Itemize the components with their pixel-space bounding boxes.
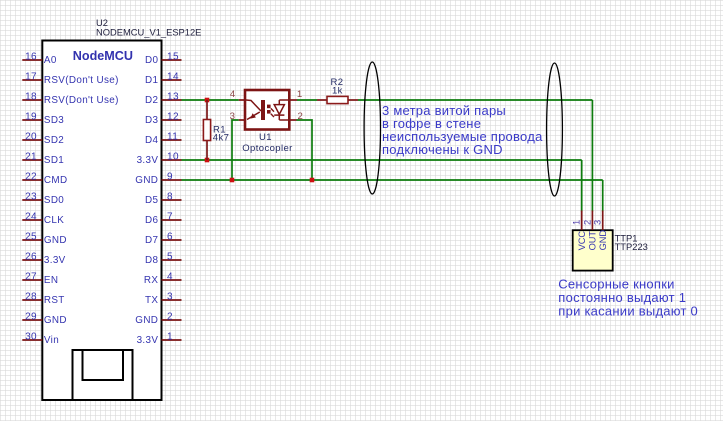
svg-text:3.3V: 3.3V <box>137 155 159 166</box>
U2 pin 8 D5 <box>145 191 182 206</box>
svg-text:19: 19 <box>25 111 37 122</box>
U1 pin 1 stub <box>289 99 298 101</box>
U2 pin 10 3.3V <box>137 151 182 166</box>
svg-text:Vin: Vin <box>44 335 59 346</box>
U1 light arrows <box>267 105 274 117</box>
U2 pin 21 SD1 <box>22 151 64 166</box>
svg-text:GND: GND <box>135 175 158 186</box>
wire OUT net from R2 to corner <box>358 99 592 101</box>
svg-text:18: 18 <box>25 91 37 102</box>
svg-text:1: 1 <box>297 89 302 100</box>
svg-text:D8: D8 <box>145 255 158 266</box>
svg-text:20: 20 <box>25 131 37 142</box>
svg-text:15: 15 <box>167 51 179 62</box>
svg-text:25: 25 <box>25 231 37 242</box>
cable bundle ellipse right <box>547 63 563 196</box>
svg-text:NodeMCU: NodeMCU <box>73 49 133 63</box>
svg-text:11: 11 <box>167 131 178 142</box>
U2 pin 6 D7 <box>145 231 182 246</box>
svg-text:16: 16 <box>25 51 37 62</box>
svg-text:VCC: VCC <box>577 231 587 251</box>
svg-text:29: 29 <box>25 311 37 322</box>
U2 pin 13 D2 <box>145 91 182 106</box>
svg-text:10: 10 <box>167 151 179 162</box>
U2 pin 15 D0 <box>145 51 182 66</box>
U2 pin 12 D3 <box>145 111 182 126</box>
svg-text:D7: D7 <box>145 235 158 246</box>
U2 pin 29 GND <box>22 311 67 326</box>
wire U1 pin2 to GND <box>297 120 313 180</box>
svg-text:5: 5 <box>167 251 173 262</box>
svg-text:24: 24 <box>25 211 37 222</box>
touch sensor TTP1 body <box>573 230 613 270</box>
U2 pin 16 A0 <box>22 51 57 66</box>
TTP1 pin 3 stub <box>602 211 604 231</box>
svg-text:RX: RX <box>144 275 158 286</box>
svg-text:3.3V: 3.3V <box>137 335 159 346</box>
U2 pin 5 D8 <box>145 251 182 266</box>
svg-text:TX: TX <box>145 295 158 306</box>
svg-text:1k: 1k <box>332 86 343 97</box>
wire GND net horizontal <box>182 179 603 181</box>
U1 pin 2 stub <box>289 119 297 121</box>
wire GND net vertical to TTP1 pin3 <box>602 180 604 212</box>
U2 pin 17 RSV(Don&#39;t Use) <box>22 71 118 86</box>
svg-text:D2: D2 <box>145 95 158 106</box>
svg-text:14: 14 <box>167 71 179 82</box>
U1 pin 3 stub <box>239 119 246 121</box>
wire 3.3V net horizontal <box>182 159 582 161</box>
svg-text:NODEMCU_V1_ESP12E: NODEMCU_V1_ESP12E <box>96 27 201 37</box>
U1 internal photodiode symbol <box>274 100 288 120</box>
svg-text:SD3: SD3 <box>44 115 64 126</box>
svg-text:4: 4 <box>230 89 236 100</box>
junction node D2/R1 <box>205 98 210 103</box>
svg-text:7: 7 <box>167 211 173 222</box>
svg-text:22: 22 <box>25 171 37 182</box>
resistor R2 <box>317 96 358 103</box>
U2 pin 18 RSV(Don&#39;t Use) <box>22 91 118 106</box>
svg-text:U1: U1 <box>259 132 272 143</box>
U2 pin 20 SD2 <box>22 131 64 146</box>
svg-text:D5: D5 <box>145 195 158 206</box>
U2 pin 11 D4 <box>145 131 182 146</box>
svg-text:Optocopler: Optocopler <box>242 143 292 154</box>
svg-text:3: 3 <box>167 291 173 302</box>
U2 pin 2 GND <box>135 311 181 326</box>
svg-text:12: 12 <box>167 111 179 122</box>
wire U1 pin1 to R2 <box>297 99 317 101</box>
svg-text:8: 8 <box>167 191 173 202</box>
svg-text:13: 13 <box>167 91 179 102</box>
U2 pin 1 3.3V <box>137 331 182 346</box>
svg-text:3.3V: 3.3V <box>44 255 66 266</box>
svg-text:EN: EN <box>44 275 58 286</box>
U2 pin 22 CMD <box>22 171 67 186</box>
U2 pin 27 EN <box>22 271 58 286</box>
U2 pin 19 SD3 <box>22 111 64 126</box>
U2 pin 4 RX <box>144 271 182 286</box>
svg-text:2: 2 <box>582 220 592 225</box>
svg-text:RST: RST <box>44 295 65 306</box>
svg-text:3: 3 <box>593 220 603 225</box>
svg-text:2: 2 <box>167 311 173 322</box>
svg-text:1: 1 <box>167 331 173 342</box>
TTP1 pin 1 stub <box>581 211 583 231</box>
TTP1 pin 2 stub <box>591 211 593 231</box>
svg-text:GND: GND <box>44 315 67 326</box>
svg-text:4k7: 4k7 <box>213 132 230 143</box>
svg-text:SD2: SD2 <box>44 135 64 146</box>
svg-text:D1: D1 <box>145 75 158 86</box>
U2 pin 7 D6 <box>145 211 182 226</box>
svg-text:28: 28 <box>25 291 37 302</box>
svg-text:CMD: CMD <box>44 175 68 186</box>
svg-text:17: 17 <box>25 71 37 82</box>
U2 pin 24 CLK <box>22 211 64 226</box>
U2 pin 25 GND <box>22 231 67 246</box>
svg-text:4: 4 <box>167 271 173 282</box>
svg-text:GND: GND <box>598 230 608 251</box>
svg-text:CLK: CLK <box>44 215 64 226</box>
svg-text:OUT: OUT <box>588 231 598 251</box>
svg-text:GND: GND <box>135 315 158 326</box>
U2 USB connector outline <box>73 350 133 400</box>
svg-text:23: 23 <box>25 191 37 202</box>
svg-text:D0: D0 <box>145 55 158 66</box>
U2 pin 30 Vin <box>22 331 59 346</box>
U2 pin 26 3.3V <box>22 251 65 266</box>
U2 pin 23 SD0 <box>22 191 64 206</box>
svg-text:27: 27 <box>25 271 37 282</box>
svg-text:RSV(Don't Use): RSV(Don't Use) <box>44 75 119 86</box>
wire D2 net <box>182 99 239 101</box>
svg-text:Сенсорные кнопки постоянно выд: Сенсорные кнопки постоянно выдают 1 при … <box>558 277 698 319</box>
U2 pin 14 D1 <box>145 71 182 86</box>
svg-text:3: 3 <box>230 111 235 122</box>
cable bundle ellipse left <box>364 62 380 194</box>
svg-text:6: 6 <box>167 231 173 242</box>
svg-text:D6: D6 <box>145 215 158 226</box>
U1 pin 4 stub <box>239 99 246 101</box>
svg-text:GND: GND <box>44 235 67 246</box>
U2 pin 3 TX <box>145 291 182 306</box>
U1 internal LED symbol <box>246 100 265 120</box>
svg-text:TTP223: TTP223 <box>615 242 648 252</box>
svg-text:21: 21 <box>25 151 37 162</box>
svg-text:26: 26 <box>25 251 37 262</box>
junction node GND/U1 pin3 <box>230 178 235 183</box>
optocoupler U1 body <box>245 90 289 130</box>
svg-text:A0: A0 <box>44 55 57 66</box>
svg-text:30: 30 <box>25 331 37 342</box>
resistor R1 <box>203 100 210 160</box>
svg-text:2: 2 <box>298 111 303 122</box>
IC U2 body <box>42 41 161 401</box>
wire 3.3V net vertical to TTP1 pin1 <box>581 160 583 212</box>
wire U1 pin3 to GND <box>232 120 239 180</box>
svg-text:D4: D4 <box>145 135 158 146</box>
wire OUT net vertical to TTP1 pin2 <box>591 100 593 212</box>
junction node GND/U1 pin2 <box>310 178 315 183</box>
U2 pin 9 GND <box>135 171 181 186</box>
U2 pin 28 RST <box>22 291 64 306</box>
svg-text:9: 9 <box>167 171 173 182</box>
svg-text:1: 1 <box>572 220 582 225</box>
svg-text:SD1: SD1 <box>44 155 64 166</box>
svg-text:D3: D3 <box>145 115 158 126</box>
svg-text:RSV(Don't Use): RSV(Don't Use) <box>44 95 119 106</box>
junction node 3.3V/R1 <box>205 158 210 163</box>
svg-text:SD0: SD0 <box>44 195 64 206</box>
